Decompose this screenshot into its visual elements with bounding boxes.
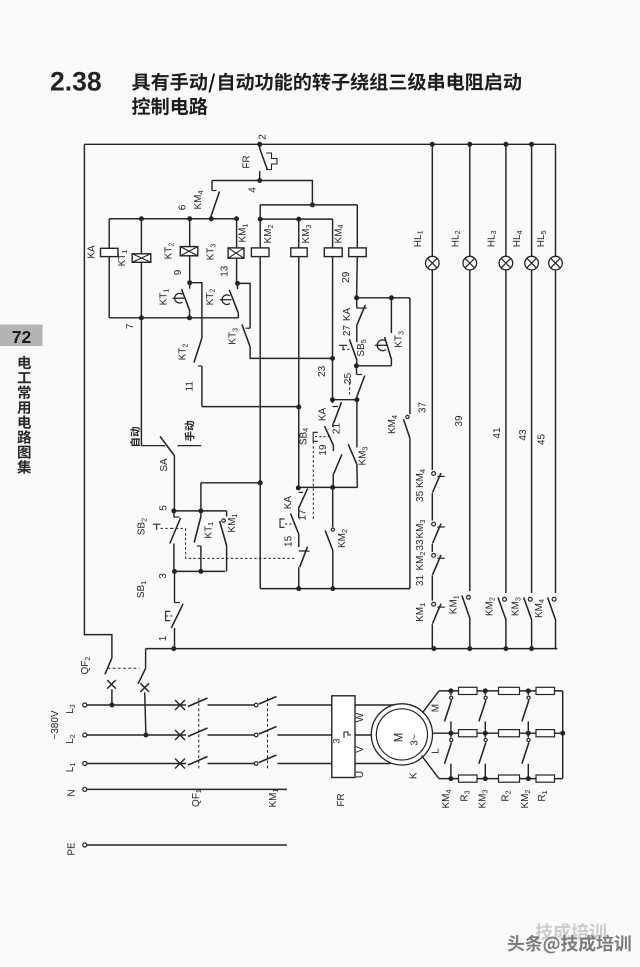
resistor R1 row3 (536, 775, 555, 782)
node 3 wire (175, 570, 226, 572)
svg-text:37: 37 (418, 402, 429, 414)
wire y=487 link (298, 486, 357, 488)
junction rail1-HL4 (529, 646, 534, 651)
mechanical link QF1 dashed (198, 698, 200, 770)
contact KT3 normally-open (246, 327, 251, 329)
contactor KM1 pole L2 (254, 733, 258, 737)
wire KM4 coil return (356, 257, 359, 298)
svg-text:35: 35 (415, 490, 426, 502)
contactor KM1 pole L1 (254, 762, 258, 766)
watermark ghost (535, 923, 605, 940)
contact KA (27 chain) (356, 298, 358, 308)
junction node 29 (354, 295, 359, 300)
wire node5 cross (174, 510, 227, 512)
contact KM4 rotor shorting (450, 733, 452, 737)
junction bus6-KT2 (187, 216, 192, 221)
junction node3 right (198, 569, 203, 574)
junction bus6-KM4contact (209, 216, 214, 221)
junction L2-QF2 (143, 733, 148, 738)
indicator lamp HL3 (499, 256, 513, 270)
page title line 1 (132, 73, 207, 91)
wire HL5 lower (555, 270, 557, 593)
wire KM2 coil return (long vertical) (298, 257, 300, 489)
wire rotor row2 lead (432, 732, 451, 734)
resistor R2 row1 (499, 687, 520, 694)
contact KM2 (lamp switch) (503, 597, 507, 601)
mechanical link QF2 dashed (108, 667, 140, 669)
breaker QF1 pole L1 (188, 757, 208, 766)
junction KT3 branch top (389, 295, 394, 300)
svg-text:5: 5 (158, 505, 169, 511)
contactor KM1 pole L3 (254, 703, 258, 707)
contact KM4 rotor shorting (450, 691, 452, 695)
junction rail1-HL1 (431, 646, 436, 651)
junction node 25 lower (354, 397, 359, 402)
svg-text:KA: KA (342, 308, 353, 322)
svg-text:KA: KA (317, 408, 328, 422)
wire KT3 parallel branch (390, 298, 392, 333)
watermark text (508, 935, 631, 954)
junction rail0-KM2line (296, 586, 301, 591)
node 4 (257, 178, 262, 183)
label manual position (178, 445, 202, 447)
junction top rail lamp HL2 (467, 142, 472, 147)
junction y487-KM3line (330, 485, 335, 490)
wire rotor resistor row 3 (439, 778, 563, 780)
wire phase L1 (83, 762, 87, 766)
time relay coil KT3 (228, 248, 244, 258)
contact 25 chain NO (355, 366, 357, 375)
wire lamp branch HL5 upper (555, 144, 557, 256)
junction top rail lamp HL3 (503, 142, 508, 147)
wire KT1 branch (140, 219, 142, 254)
junction chain-KM2line (296, 405, 301, 410)
wire KT3 contact to node 23 (250, 347, 334, 358)
wire phase L2 FR to motor (355, 734, 372, 736)
node 25 (B) (354, 363, 359, 368)
node 1 (171, 646, 176, 651)
junction KM1line-auto branch (258, 480, 263, 485)
wire rail 7 (109, 317, 238, 319)
node 9 (187, 280, 192, 285)
junction node 23 (330, 356, 335, 361)
page title line 2 (132, 97, 208, 115)
pushbutton SB2 stop (NC) (173, 511, 175, 517)
wire KT2 branch (189, 219, 191, 247)
junction bus6-KT1 (139, 216, 144, 221)
circuit breaker QF2 pole2 (145, 649, 147, 669)
resistor R3 row2 (459, 730, 478, 737)
svg-text:15: 15 (284, 535, 295, 547)
indicator lamp HL5 (549, 256, 563, 270)
contact KT2 normally-open (manual chain) (194, 338, 202, 363)
wire left border of control loop (84, 144, 112, 658)
contact KM3 (lamp switch) (528, 597, 532, 601)
wire KT1-auto branch to KM1 line (201, 482, 260, 484)
pushbutton SB5 (start) (349, 339, 357, 360)
svg-text:45: 45 (537, 434, 548, 446)
wire node4 to KM4 contact (212, 180, 260, 182)
svg-text:FR: FR (242, 155, 253, 168)
contact KT3 delayed-close (377, 340, 386, 351)
contact KM3 rotor shorting (484, 691, 486, 695)
wire lamp branch HL3 upper (505, 144, 507, 256)
junction node4 drop (310, 202, 315, 207)
wire node4 to coil feed line (260, 181, 313, 205)
contact KM2 rotor shorting (527, 691, 529, 695)
mechanical link SB4 dashed (312, 441, 314, 521)
time relay coil KT2 (180, 247, 198, 256)
contact third (19 chain lower) (334, 454, 342, 474)
wire rotor row3 lead (422, 756, 439, 779)
junction L3-QF2 (109, 703, 114, 708)
contact KM4 (lamp switch) (552, 597, 556, 601)
contact KT1 delayed-close (node9 to rail7) (189, 283, 191, 289)
contact KM1 seal-in (226, 511, 228, 517)
junction resistor row1 col3 (526, 688, 531, 693)
wire lamp branch HL1 upper (431, 144, 433, 256)
relay coil KA (101, 248, 119, 256)
resistor R3 row3 (459, 775, 478, 782)
resistor R2 row3 (499, 775, 520, 782)
wire HL5 to rail1 corner (556, 626, 558, 649)
wire rail 1 (bottom control rail) (146, 648, 558, 650)
junction node5-KT1 (198, 508, 203, 513)
wire KA branch (108, 219, 110, 249)
wire rail 0 (y=588.6) (260, 588, 410, 590)
junction node3 left (172, 569, 177, 574)
junction top rail lamp HL1 (430, 142, 435, 147)
wire KM3 drop (332, 219, 334, 248)
wire rotor resistor row 1 (439, 690, 563, 692)
svg-text:43: 43 (518, 429, 529, 441)
pushbutton SB4 (19 chain) (325, 426, 334, 446)
wire lamp branch HL4 upper (531, 144, 533, 256)
svg-text:2.38: 2.38 (50, 67, 102, 97)
wire HL1 lower with series contacts (431, 270, 433, 470)
mechanical link SB5 dashed (349, 378, 351, 396)
junction rail0-KM3line (330, 586, 335, 591)
contactor coil KM3 (324, 248, 342, 257)
junction node 23 lower (330, 397, 335, 402)
svg-text:3~: 3~ (410, 734, 421, 746)
contact KM3 aux on node25 line (356, 400, 358, 448)
node 13 (235, 281, 240, 286)
motor M 3-phase (371, 704, 432, 765)
svg-text:31: 31 (415, 575, 426, 587)
wire rail7 to selector SA (140, 318, 142, 446)
wire node23-node25 link (333, 399, 357, 401)
wire phase L2 (83, 733, 87, 737)
svg-text:6: 6 (178, 204, 189, 210)
wire rotor resistor row 2 (451, 732, 563, 734)
svg-text:V: V (355, 746, 366, 753)
contactor coil KM4 (349, 248, 367, 257)
wire phase L3 FR to motor (355, 704, 394, 706)
junction y487-KM2line (296, 485, 301, 490)
svg-text:23: 23 (317, 365, 328, 377)
contact KM4 normally-open (seal-in above bus 6) (212, 190, 217, 192)
svg-text:72: 72 (12, 327, 32, 347)
junction resistor row2 col3 (526, 731, 531, 736)
wire manual chain y=406.6 (202, 406, 299, 408)
wire rotor row1 lead (423, 691, 439, 713)
node 2 (257, 142, 262, 147)
svg-text:41: 41 (492, 427, 503, 439)
svg-text:7: 7 (125, 323, 136, 329)
junction resistor row2 col1 (448, 731, 453, 736)
contactor coil KM2 (291, 248, 307, 257)
node 5 (171, 508, 176, 513)
svg-text:9: 9 (173, 269, 184, 275)
contact KA (17 chain) (299, 491, 303, 493)
thermal relay contact FR (259, 144, 261, 148)
svg-text:11: 11 (185, 381, 196, 392)
svg-text:M: M (394, 733, 406, 743)
wire lamp branch HL2 upper (469, 144, 471, 256)
wire KT3 branch to node25 (356, 365, 391, 367)
wire SA to node 5 (173, 456, 175, 511)
junction resistor row1 col2 (483, 688, 488, 693)
wire KT3 branch (236, 219, 238, 248)
svg-text:KA: KA (87, 245, 98, 259)
indicator lamp HL2 (463, 256, 477, 270)
svg-text:19: 19 (318, 444, 329, 456)
junction rail7-KA (139, 315, 144, 320)
wire star-point vertical (562, 691, 564, 779)
junction bus6-KT3 (234, 216, 239, 221)
contact KT1 instant NO (auto run) (200, 511, 202, 517)
wire node29 to KM4 aux drop (357, 297, 410, 299)
sidebar page number box (0, 325, 43, 347)
contactor coil KM1 (251, 248, 269, 257)
svg-text:1: 1 (158, 635, 169, 641)
wire KM4 coil drop (356, 205, 358, 248)
contact KM3 rotor shorting (484, 733, 486, 737)
time relay coil KT1 (132, 254, 151, 262)
wire PE (83, 843, 87, 847)
junction KM2 drop (296, 217, 301, 222)
mechanical link SB2 dashed (186, 528, 297, 558)
contact KM4 series (lamp chain) (432, 472, 436, 476)
contact KM2 rotor shorting (527, 733, 529, 737)
contact KM1 (lamp switch) (467, 595, 471, 599)
svg-text:SA: SA (159, 458, 170, 472)
wire HL3 lower (505, 270, 507, 593)
wire coil feed line y=205 (260, 204, 357, 206)
wire phase L3 (83, 703, 87, 707)
wire N (83, 787, 87, 791)
contact KT2 delayed-close (node13 to rail7) (237, 283, 239, 289)
breaker QF1 pole L3 (188, 698, 208, 707)
svg-text:PE: PE (66, 842, 77, 856)
svg-text:25: 25 (343, 373, 354, 385)
pushbutton contact (17-15) (291, 514, 299, 534)
resistor R1 row2 (536, 730, 555, 737)
contact KM4 aux (lamp feed) (406, 415, 409, 418)
svg-text:33: 33 (415, 539, 426, 551)
svg-text:FR: FR (336, 793, 347, 806)
resistor R2 row2 (499, 730, 520, 737)
svg-text:U: U (355, 771, 366, 778)
wire node9 to KT2 chain (190, 283, 202, 338)
contact KM2 series (lamp chain) (432, 554, 436, 558)
svg-text:L: L (431, 748, 442, 754)
svg-text:K: K (409, 772, 420, 779)
svg-text:KA: KA (283, 496, 294, 510)
pushbutton SB1 stop (NC) (174, 571, 176, 602)
junction resistor row1 col1 (448, 688, 453, 693)
junction resistor row2 col2 (483, 731, 488, 736)
label auto position (130, 427, 140, 446)
svg-text:13: 13 (220, 265, 231, 277)
mechanical link KM1 dashed (267, 698, 269, 770)
junction resistor row3 col2 (483, 776, 488, 781)
wire KM4 aux drop (409, 298, 411, 414)
breaker QF1 pole L2 (188, 728, 208, 737)
indicator lamp HL1 (426, 256, 440, 270)
sidebar book title (19, 356, 32, 369)
svg-text:3: 3 (332, 738, 342, 743)
wire node13 to KT3 contact (238, 283, 251, 328)
resistor R1 row1 (536, 687, 555, 694)
indicator lamp HL4 (525, 256, 539, 270)
wire phase L1 FR to motor (355, 763, 391, 765)
svg-text:4: 4 (248, 187, 259, 193)
junction top rail lamp HL4 (529, 142, 534, 147)
svg-text:W: W (355, 712, 366, 722)
selector switch SA (141, 445, 165, 447)
svg-text:29: 29 (341, 271, 352, 283)
wire top rail (node 2 rail) (84, 143, 555, 145)
svg-text:27: 27 (342, 325, 353, 337)
wire HL2 lower (469, 270, 471, 591)
wire bus 6 (109, 218, 239, 220)
wire KM1 coil drop (259, 205, 261, 248)
contact KA (21 chain) (333, 406, 339, 408)
junction rail1-HL3 (503, 646, 508, 651)
contact KM3 series (lamp chain) (432, 522, 436, 526)
svg-text:3: 3 (158, 573, 169, 579)
wire KM3 coil return vertical (332, 257, 334, 359)
svg-text:2: 2 (258, 134, 269, 140)
svg-text:N: N (66, 789, 77, 796)
junction rail7-KT1contact (187, 315, 192, 320)
junction rail1-HL2 (467, 646, 472, 651)
svg-text:~380V: ~380V (50, 710, 61, 740)
contact KM2 aux on KM3 line (332, 487, 334, 527)
svg-text:21: 21 (332, 423, 343, 435)
circuit breaker QF2 pole1 (105, 658, 112, 674)
thermal overload relay FR box (332, 696, 355, 778)
contact KM1 series (lamp chain) (432, 602, 436, 606)
svg-text:39: 39 (454, 415, 465, 427)
resistor R3 row1 (459, 687, 478, 694)
junction resistor row3 col3 (526, 776, 531, 781)
wire KM2 KM3 coil feed stub (260, 218, 332, 220)
junction resistor row3 col1 (448, 776, 453, 781)
wire HL4 lower (531, 270, 533, 593)
svg-text:M: M (431, 704, 442, 712)
wire KM1 coil return (long vertical) (259, 257, 261, 589)
